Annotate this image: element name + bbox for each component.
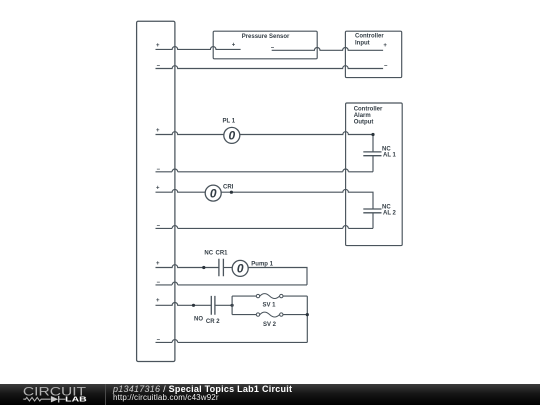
wire CR2 to branch node [215, 304, 232, 306]
svg-text:+: + [156, 261, 160, 267]
wire rung2 minus rail to controller input minus [156, 66, 384, 69]
svg-text:CRI: CRI [223, 184, 234, 190]
solenoid SV1 [256, 294, 259, 297]
lamp PL1 [224, 127, 240, 143]
pressure sensor box [213, 31, 317, 59]
svg-text:Controller: Controller [354, 106, 383, 112]
svg-text:NC: NC [204, 250, 213, 256]
svg-text:Output: Output [354, 120, 374, 126]
wire rung3 + rail to PL1 [156, 132, 224, 135]
wire rung1 + from rail to pressure sensor [156, 47, 241, 50]
wire SV1 branch right [283, 295, 307, 297]
junction dot SV right [306, 313, 309, 316]
svg-text:CR 2: CR 2 [206, 319, 220, 325]
svg-text:LAB: LAB [65, 397, 87, 404]
svg-text:−: − [157, 337, 161, 343]
svg-text:CR1: CR1 [216, 250, 229, 256]
wire pump right and return to rail [156, 268, 308, 285]
svg-text:Pressure Sensor: Pressure Sensor [242, 34, 290, 40]
svg-text:−: − [384, 64, 388, 70]
svg-text:Pump 1: Pump 1 [251, 261, 273, 267]
svg-text:+: + [156, 128, 160, 134]
junction dot rung5 [202, 266, 205, 269]
NO contact CR2 plates [211, 296, 215, 315]
junction dot AL1 corner [371, 133, 374, 136]
svg-text:AL 2: AL 2 [383, 210, 397, 216]
NC contact AL2 plates [363, 209, 381, 213]
svg-text:−: − [157, 223, 161, 229]
svg-text:NO: NO [194, 317, 203, 323]
svg-text:AL 1: AL 1 [383, 153, 397, 159]
svg-text:Controller: Controller [355, 34, 384, 40]
wire SV2 branch left [232, 314, 256, 316]
svg-text:SV 1: SV 1 [263, 302, 277, 308]
footer text [112, 383, 114, 385]
svg-text:−: − [271, 45, 275, 51]
wire branch vertical [231, 296, 233, 315]
wire PL1 to alarm box AL1 [240, 132, 373, 152]
controller alarm output box U3 [346, 103, 403, 246]
svg-text:PL 1: PL 1 [223, 119, 236, 125]
svg-text:+: + [156, 43, 160, 49]
coil Pump 1 [232, 260, 248, 276]
svg-text:−: − [157, 280, 161, 286]
footer bar [0, 384, 540, 405]
wire SV right vertical [306, 296, 308, 342]
junction dot branch node [231, 304, 234, 307]
junction dot after CRI label [230, 191, 233, 194]
wire rung6 + rail to NO contact CR2 [156, 303, 212, 306]
svg-text:+: + [383, 43, 387, 49]
svg-text:+: + [156, 186, 160, 192]
wire AL1 bottom return to rail [156, 156, 374, 172]
logo resistor symbol [23, 397, 50, 401]
junction dot rung6 left [192, 304, 195, 307]
svg-text:Input: Input [355, 40, 370, 46]
logo diode symbol [51, 396, 58, 402]
svg-text:NC: NC [382, 146, 391, 152]
solenoid SV2 [256, 313, 259, 316]
wire rung4 + rail to CRI coil [156, 189, 206, 192]
svg-text:SV 2: SV 2 [263, 322, 277, 328]
NC contact CR1 plates [219, 259, 224, 277]
svg-text:Alarm: Alarm [354, 113, 371, 119]
wire AL2 bottom return to rail [156, 213, 374, 228]
svg-text:0: 0 [210, 186, 217, 200]
wire CRI to alarm box AL2 [221, 189, 373, 208]
wire SV return to rail [156, 340, 308, 343]
svg-text:−: − [157, 167, 161, 173]
relay coil CRI [205, 185, 221, 201]
footer separator [105, 384, 106, 405]
circuitlab logo [0, 384, 105, 405]
controller input box U2 [345, 31, 401, 77]
wire SV2 branch right [283, 314, 307, 316]
power rail box [137, 21, 175, 361]
wire pressure sensor minus to controller input plus [272, 47, 383, 50]
NC contact AL1 plates [363, 152, 381, 156]
svg-text:0: 0 [237, 262, 244, 276]
svg-text:0: 0 [228, 129, 235, 143]
svg-text:+: + [156, 298, 160, 304]
wire SV1 branch left [232, 295, 256, 297]
svg-text:−: − [157, 64, 161, 70]
wire CR1 to Pump1 coil [223, 267, 232, 269]
svg-text:+: + [232, 42, 236, 48]
wire rung5 + rail to NC contact CR1 [156, 265, 219, 268]
